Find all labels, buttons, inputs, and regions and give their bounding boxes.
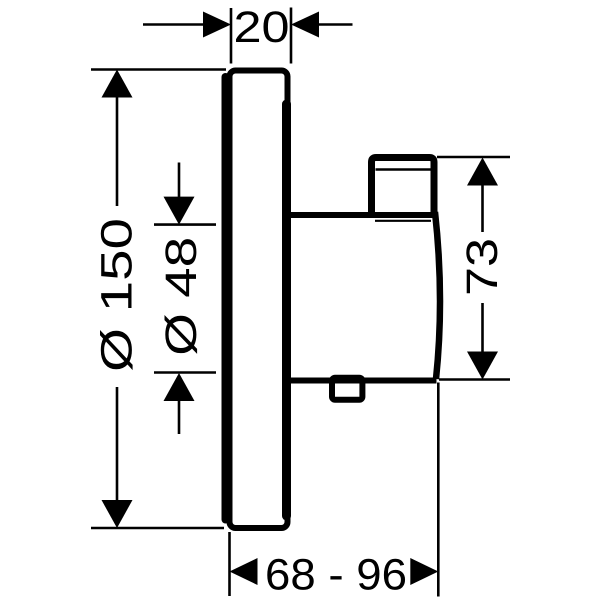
dim 20: left tail: [143, 23, 203, 26]
dim 73: top arrow: [467, 158, 498, 186]
dim O150: line upper segment: [116, 96, 119, 206]
dim 68-96: text: [267, 559, 405, 590]
dim 20: right extension line: [290, 8, 293, 64]
top box inner line: [376, 168, 431, 171]
body thin line under box: [375, 220, 431, 222]
dim O150: text: [100, 220, 133, 370]
dim 68-96: right extension line: [437, 383, 440, 597]
dim 20: left arrow: [203, 12, 231, 38]
dim O150: top extension line: [91, 68, 226, 71]
bottom tab: [332, 378, 362, 400]
dim 73: line upper segment: [481, 185, 484, 232]
dim O48: lower tick: [154, 371, 216, 374]
dim O150: bottom extension line: [91, 527, 224, 530]
dim 73: bottom extension line: [439, 378, 510, 381]
top box (stop ring): [372, 158, 435, 219]
dim O150: line lower segment: [116, 387, 119, 501]
body right edge (curved): [435, 212, 440, 379]
dim 20: text: [236, 11, 287, 42]
dim 20: right arrow: [291, 12, 319, 38]
dim 73: top extension line: [437, 156, 510, 159]
dim 68-96: left extension line: [228, 532, 231, 596]
plate back face bar: [282, 104, 291, 516]
dim O48: upper leader: [178, 163, 181, 199]
body top edge: [289, 212, 434, 218]
dim O150: top arrow: [102, 70, 133, 98]
dim 20: right tail: [319, 23, 353, 26]
dim O48: upper arrow: [164, 197, 195, 225]
dim 73: line lower segment: [481, 303, 484, 352]
dim 73: bottom arrow: [467, 352, 498, 380]
body bottom edge: [289, 378, 437, 384]
plate outline (escutcheon side view): [230, 71, 288, 529]
dim O48: text: [165, 239, 198, 354]
dim 68-96: left arrow: [230, 558, 258, 585]
dim 73: text: [466, 240, 497, 293]
plate front face bar: [222, 77, 230, 520]
dim O48: lower arrow: [164, 373, 195, 401]
dim O150: bottom arrow: [102, 500, 133, 528]
dim O48: upper tick: [154, 223, 216, 226]
dim 68-96: right arrow: [410, 558, 438, 585]
dim O48: lower leader: [178, 400, 181, 434]
dim 20: left extension line: [230, 8, 233, 64]
